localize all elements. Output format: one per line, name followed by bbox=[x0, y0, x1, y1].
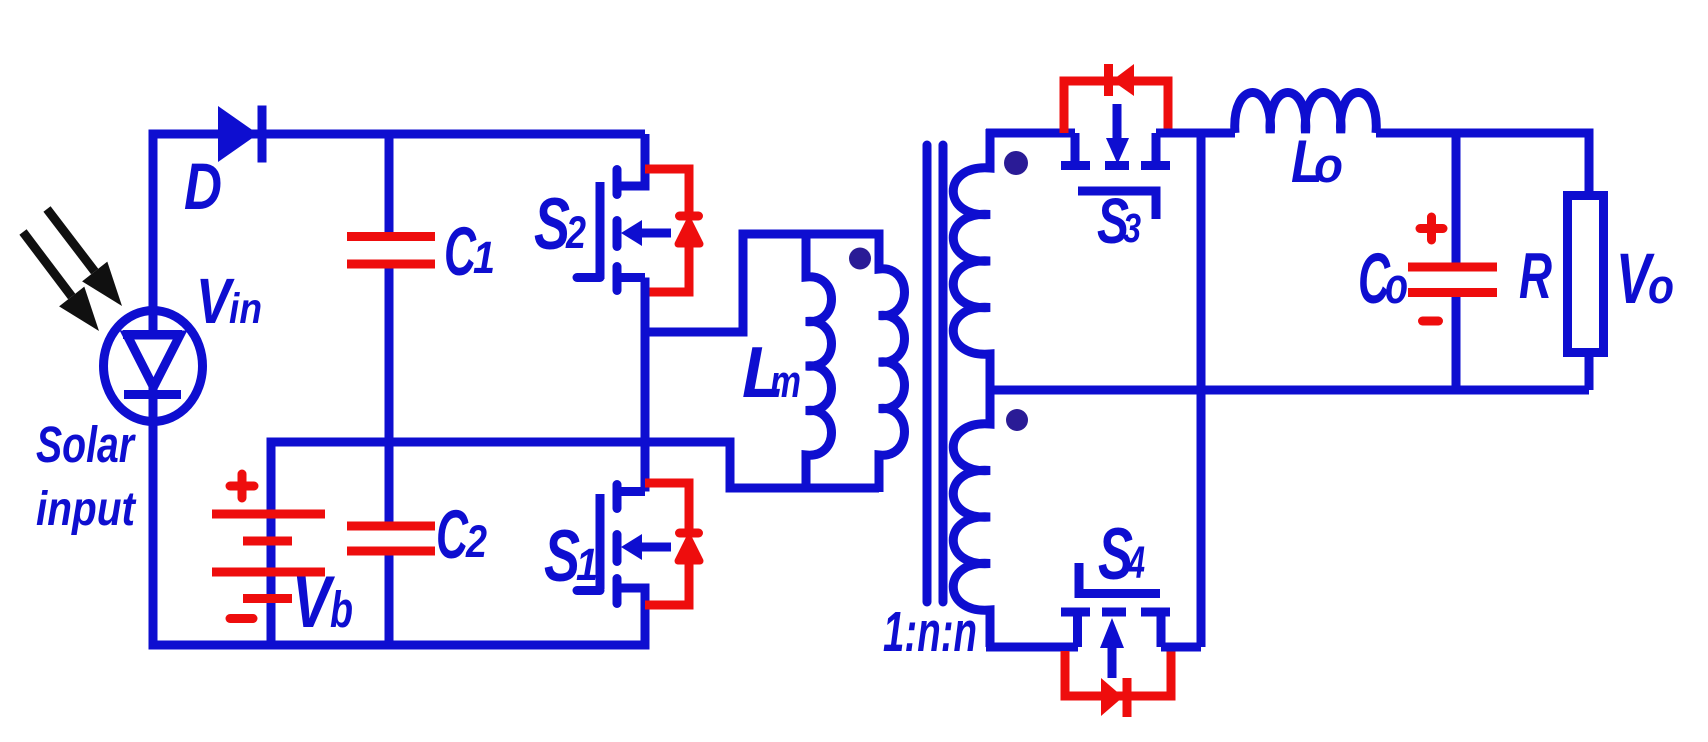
wire secondary top rail right bbox=[1156, 129, 1235, 138]
wire top input rail bbox=[149, 130, 646, 139]
wire Lo to resistor corner bbox=[1376, 133, 1589, 196]
svg-text:S: S bbox=[534, 184, 570, 265]
svg-text:o: o bbox=[1385, 256, 1408, 314]
resistor R bbox=[1568, 196, 1604, 391]
capacitor Co bbox=[1408, 133, 1497, 390]
capacitor C2 bbox=[347, 446, 435, 645]
wire S2-S1 node vertical bbox=[641, 278, 650, 492]
svg-text:1:n:n: 1:n:n bbox=[883, 600, 977, 664]
inductor Lm bbox=[806, 230, 832, 493]
primary dot bbox=[849, 248, 871, 270]
wire middle rail bbox=[267, 442, 880, 488]
secondary winding top bbox=[953, 129, 990, 390]
MOSFET S1 bbox=[577, 485, 671, 650]
dot secondary top bbox=[1004, 151, 1028, 175]
wire bottom input rail bbox=[149, 641, 650, 650]
svg-text:b: b bbox=[330, 581, 353, 638]
solar irradiance arrow 1 bbox=[23, 232, 99, 331]
svg-text:C: C bbox=[444, 213, 477, 290]
battery Vb bbox=[212, 442, 325, 645]
photodiode solar cell bbox=[104, 311, 203, 422]
svg-text:V: V bbox=[292, 562, 335, 643]
svg-text:1: 1 bbox=[576, 539, 598, 590]
svg-text:3: 3 bbox=[1123, 205, 1141, 251]
transformer primary winding bbox=[879, 230, 905, 493]
svg-text:S: S bbox=[544, 516, 580, 597]
transformer core bbox=[927, 145, 943, 602]
svg-text:C: C bbox=[436, 496, 469, 573]
MOSFET S2 bbox=[577, 134, 671, 291]
S4 red diode loop bbox=[1065, 651, 1171, 717]
svg-text:m: m bbox=[770, 356, 801, 407]
MOSFET S3 bbox=[1061, 104, 1170, 219]
svg-text:Solar: Solar bbox=[36, 416, 136, 473]
svg-text:4: 4 bbox=[1127, 537, 1145, 588]
body diode of S1 bbox=[645, 483, 700, 605]
wire output mid rail bbox=[986, 386, 1589, 395]
S3 red diode loop bbox=[1064, 64, 1168, 133]
dot secondary bottom bbox=[1006, 409, 1028, 431]
body diode of S2 bbox=[645, 169, 700, 292]
svg-text:R: R bbox=[1519, 239, 1552, 312]
MOSFET S4 bbox=[1061, 563, 1170, 678]
svg-text:D: D bbox=[184, 149, 222, 223]
wire left input vertical bbox=[149, 130, 158, 650]
svg-text:2: 2 bbox=[565, 207, 586, 258]
secondary winding bottom bbox=[953, 386, 990, 647]
diode D bbox=[218, 106, 262, 163]
capacitor C1 bbox=[347, 134, 435, 442]
svg-text:input: input bbox=[36, 483, 137, 536]
svg-text:o: o bbox=[1648, 260, 1674, 314]
wire S4 bottom right bbox=[1161, 643, 1201, 652]
svg-text:o: o bbox=[1314, 139, 1343, 193]
wire S4 bottom left bbox=[986, 643, 1078, 652]
solar irradiance arrow 2 bbox=[47, 209, 122, 306]
inductor Lo bbox=[1235, 93, 1377, 134]
wire secondary top rail left bbox=[986, 129, 1075, 138]
svg-text:in: in bbox=[229, 285, 262, 333]
svg-text:1: 1 bbox=[473, 232, 495, 283]
wire node to transformer top bbox=[645, 234, 879, 332]
wire right vertical common bbox=[1197, 133, 1206, 647]
svg-text:2: 2 bbox=[465, 516, 487, 567]
